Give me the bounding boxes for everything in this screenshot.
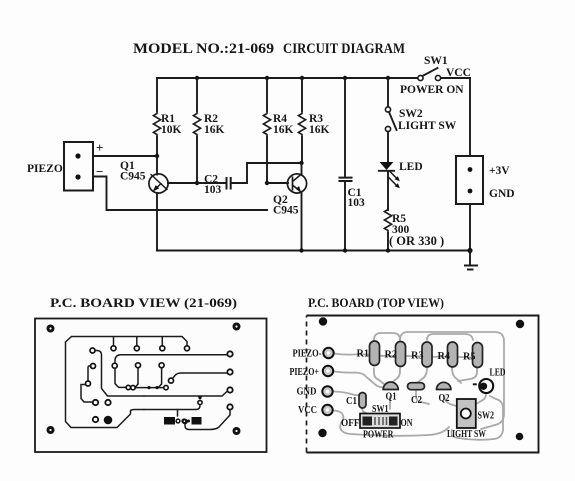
trace top bus with drops bbox=[66, 337, 188, 347]
svg-text:P.C. BOARD (TOP VIEW): P.C. BOARD (TOP VIEW) bbox=[308, 295, 444, 310]
trace row to right pad1 bbox=[115, 355, 228, 363]
node Q2 base / R4 bottom bbox=[265, 181, 269, 185]
svg-text:P.C. BOARD VIEW (21-069): P.C. BOARD VIEW (21-069) bbox=[50, 295, 237, 310]
node junction on rail for SW2 branch bbox=[386, 76, 390, 80]
switch SW2 bbox=[385, 78, 456, 132]
capacitor C2 bbox=[197, 163, 302, 196]
svg-text:POWER: POWER bbox=[363, 430, 394, 441]
svg-text:LIGHT SW: LIGHT SW bbox=[447, 429, 486, 440]
connector labels bbox=[290, 349, 322, 417]
trace switch vertical bbox=[177, 410, 179, 417]
svg-text:C2: C2 bbox=[411, 395, 422, 406]
transistor Q1 bbox=[120, 156, 197, 251]
svg-text:Q1: Q1 bbox=[386, 392, 397, 403]
node C2 right to R3/Q2 collector bbox=[299, 161, 303, 165]
svg-text:103: 103 bbox=[348, 197, 366, 209]
screw hole bottom-right (top view) bbox=[516, 433, 524, 441]
svg-text:PIEZO-: PIEZO- bbox=[293, 349, 322, 360]
svg-text:GND: GND bbox=[489, 188, 515, 200]
screw hole top-right bbox=[233, 323, 241, 331]
svg-text:R2: R2 bbox=[385, 350, 398, 361]
title text bbox=[133, 41, 405, 57]
transistor Q2 bbox=[267, 163, 307, 251]
trace middle H bottom arms bbox=[135, 384, 164, 388]
svg-text:+: + bbox=[96, 140, 103, 155]
trace long row to right pad3 bbox=[144, 391, 228, 396]
right pads column bbox=[227, 351, 232, 356]
svg-text:OFF: OFF bbox=[341, 418, 360, 429]
battery holder box +3V bbox=[456, 156, 515, 204]
svg-text:103: 103 bbox=[204, 184, 222, 196]
pads top bus bbox=[111, 346, 116, 351]
transistor Q1 top view bbox=[383, 382, 398, 390]
resistor body R2 top view bbox=[396, 342, 406, 367]
svg-text:LIGHT SW: LIGHT SW bbox=[398, 120, 457, 132]
trace middle H verticals bbox=[138, 368, 162, 384]
svg-text:( OR 330 ): ( OR 330 ) bbox=[389, 234, 444, 248]
connector pad GND bbox=[322, 386, 332, 396]
trace curl from top pad bbox=[95, 351, 144, 397]
trace long bottom row and stub bbox=[144, 406, 200, 410]
svg-text:R1: R1 bbox=[357, 349, 370, 360]
resistor R3 bbox=[298, 76, 329, 163]
svg-text:PIEZO+: PIEZO+ bbox=[290, 367, 320, 378]
board outline left pcb bbox=[35, 319, 267, 453]
pads lower-left cluster bbox=[93, 400, 98, 405]
resistor R4 bbox=[263, 76, 293, 183]
screw hole bottom-left bbox=[47, 426, 55, 434]
svg-text:ON: ON bbox=[401, 418, 413, 429]
wire piezo plus to Q1 base node bbox=[93, 155, 157, 157]
wire bottom rail bbox=[157, 250, 470, 252]
wire battery to ground bbox=[469, 204, 471, 251]
switch SW1 power top view bbox=[341, 404, 413, 441]
svg-text:LED: LED bbox=[490, 368, 506, 379]
svg-text:16K: 16K bbox=[273, 124, 294, 136]
transistor Q2 top view bbox=[437, 382, 451, 389]
wire right vcc drop to battery bbox=[469, 78, 471, 156]
trace left board loop bbox=[66, 342, 145, 428]
trace small n-shape bbox=[88, 366, 91, 381]
resistor R1 bbox=[153, 78, 181, 156]
svg-text:10K: 10K bbox=[161, 124, 182, 136]
connector pad PIEZO- bbox=[323, 348, 333, 358]
switch SW2 top view bbox=[447, 399, 494, 440]
svg-text:C945: C945 bbox=[120, 171, 146, 183]
node Q2 emitter bottom bbox=[299, 248, 303, 252]
node R5 bottom bbox=[386, 248, 390, 252]
svg-text:R3: R3 bbox=[411, 351, 424, 362]
node piezo plus / R1 junction bbox=[155, 154, 159, 158]
capacitor C1 top view bbox=[359, 393, 366, 409]
capacitor C1 bbox=[339, 76, 366, 251]
board outline right pcb bbox=[307, 316, 539, 453]
svg-text:Q2: Q2 bbox=[439, 393, 450, 404]
svg-text:MODEL NO.:21-069: MODEL NO.:21-069 bbox=[133, 41, 274, 57]
svg-text:CIRCUIT DIAGRAM: CIRCUIT DIAGRAM bbox=[283, 41, 405, 57]
resistor body R1 top view bbox=[370, 341, 380, 366]
screw hole bottom-left (top view) bbox=[318, 429, 326, 437]
svg-text:16K: 16K bbox=[204, 124, 225, 136]
trace z-link to lower pad bbox=[81, 385, 92, 403]
LED top view bbox=[473, 368, 506, 394]
svg-text:R4: R4 bbox=[438, 351, 451, 362]
switch footprint blocks bbox=[164, 417, 175, 425]
node C1 bottom bbox=[343, 248, 347, 252]
wire top rail bbox=[157, 77, 470, 79]
screw hole top-right (top view) bbox=[516, 320, 524, 328]
screw hole top-left (top view) bbox=[319, 317, 327, 325]
node ground junction bbox=[467, 248, 472, 253]
connector pad PIEZO+ bbox=[323, 366, 333, 376]
connector pad VCC bbox=[322, 405, 332, 415]
resistor body R4 top view bbox=[448, 342, 458, 367]
svg-text:R5: R5 bbox=[463, 352, 476, 363]
switch SW1 bbox=[400, 55, 471, 96]
svg-text:C1: C1 bbox=[346, 396, 357, 407]
svg-text:VCC: VCC bbox=[298, 405, 317, 416]
resistor body R3 top view bbox=[422, 342, 432, 367]
capacitor C2 top view bbox=[408, 383, 425, 390]
screw hole top-left bbox=[47, 325, 55, 333]
svg-text:C945: C945 bbox=[273, 205, 299, 217]
resistor R2 bbox=[193, 76, 224, 183]
trace bottom right hook bbox=[185, 410, 230, 430]
node R2 bottom / C2 left bbox=[195, 181, 199, 185]
svg-text:SW2: SW2 bbox=[478, 411, 495, 422]
svg-text:SW2: SW2 bbox=[399, 108, 423, 120]
trace vertical from pad1 down bbox=[115, 368, 126, 387]
screw hole bottom-right bbox=[233, 427, 241, 435]
gray traces top view bbox=[334, 354, 478, 358]
svg-text:+3V: +3V bbox=[489, 165, 510, 177]
svg-text:PIEZO: PIEZO bbox=[27, 163, 63, 175]
piezo element box bbox=[27, 140, 103, 191]
svg-text:GND: GND bbox=[297, 387, 317, 398]
svg-text:SW1: SW1 bbox=[424, 55, 448, 67]
resistor R5 bbox=[384, 207, 444, 251]
trace row to right pad2 bbox=[173, 373, 228, 378]
svg-text:LED: LED bbox=[399, 161, 423, 173]
resistor body R5 top view bbox=[473, 343, 483, 368]
svg-text:VCC: VCC bbox=[446, 67, 471, 79]
ground symbol bbox=[464, 251, 478, 270]
wire piezo minus to Q2 base column bbox=[93, 177, 267, 211]
LED D1 bbox=[379, 132, 423, 211]
svg-text:16K: 16K bbox=[309, 124, 330, 136]
svg-text:POWER ON: POWER ON bbox=[400, 84, 464, 96]
